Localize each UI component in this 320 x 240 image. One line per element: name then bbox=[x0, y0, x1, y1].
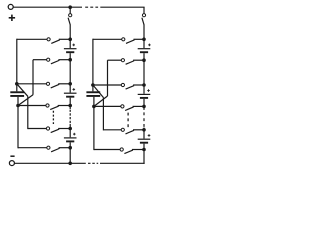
wire module 1 diagonal to node B bbox=[18, 95, 33, 106]
junction module 2 node A bbox=[91, 83, 95, 87]
wire module 1 row2 riser bbox=[32, 60, 34, 95]
wire module 2 row2 riser bbox=[107, 60, 109, 96]
junction module 2 bus row5 bbox=[142, 128, 146, 132]
wire bottom rail right segment bbox=[100, 162, 145, 164]
wire module 1 row2 right bbox=[58, 59, 70, 61]
junction module 2 node B bbox=[92, 105, 96, 109]
wire module 1 bus mid1 bbox=[69, 53, 71, 92]
switch S2e bbox=[121, 128, 134, 134]
plus label bbox=[9, 15, 15, 21]
wire module 2 row5 right bbox=[133, 129, 144, 131]
switch S1d bbox=[46, 104, 59, 110]
wire module 1 bus mid3 bbox=[69, 124, 71, 137]
wire module 2 bus mid3 bbox=[143, 128, 145, 139]
junction module 1 bus row2 bbox=[68, 58, 72, 62]
capacitor C23 plus mark bbox=[148, 134, 151, 137]
wire bottom rail left segment bbox=[15, 162, 86, 164]
wire module 2 row1 right bbox=[134, 38, 145, 40]
capacitor C22 plus mark bbox=[147, 89, 150, 92]
wire module 2 row2 right bbox=[133, 59, 144, 61]
wire module 2 diagonal to node B bbox=[94, 96, 108, 106]
wire module 1 diagonal from node A bbox=[17, 84, 28, 97]
wire bottom rail dashed continuation bbox=[88, 162, 98, 164]
junction module 2 bus row4 bbox=[142, 105, 146, 109]
minus label bbox=[10, 155, 14, 157]
negative terminal bbox=[9, 161, 14, 166]
wire module 1 node B drop bbox=[17, 106, 19, 149]
junction module 1 node A bbox=[15, 82, 19, 86]
junction module 2 bus row6 bbox=[142, 148, 146, 152]
wire module 2 bus dotted continuation bbox=[143, 112, 145, 127]
switch S2f bbox=[120, 148, 133, 154]
wire module 2 bus upper bbox=[143, 37, 145, 48]
wire top rail right segment bbox=[100, 6, 144, 8]
wire module 1 row5 riser bbox=[27, 96, 29, 129]
junction module 1 bus row3 bbox=[68, 82, 72, 86]
switch S2a bbox=[122, 38, 135, 44]
wire module 1 row5 left bbox=[28, 128, 47, 130]
wire module 2 bus lower bbox=[143, 144, 145, 164]
capacitor C2f (flying) bbox=[86, 85, 100, 106]
wire module 1 bus lower bbox=[69, 142, 71, 163]
switch S1f bbox=[47, 146, 60, 152]
switch S10 (module 1 top) bbox=[68, 7, 72, 39]
wire module 2 row5 riser bbox=[102, 98, 104, 131]
wire module 1 row4 left bbox=[18, 105, 46, 107]
junction module 1 bus row6 bbox=[68, 146, 72, 150]
wire module 1 row4 right bbox=[58, 105, 70, 107]
switch S20 (module 2 top) bbox=[142, 7, 146, 39]
wire module 2 node B drop bbox=[93, 106, 95, 150]
wire module 1 left rail bbox=[16, 39, 18, 84]
junction bottom rail / module 1 bus bbox=[68, 162, 72, 166]
wire module 2 row4 right bbox=[133, 105, 144, 107]
wire module 2 bus mid1 bbox=[143, 53, 145, 94]
capacitor C21 plus mark bbox=[148, 44, 151, 47]
wire module 1 row3 right bbox=[58, 83, 70, 85]
capacitor C21 bbox=[138, 49, 151, 53]
positive terminal bbox=[8, 4, 13, 9]
wire module 2 row6 left bbox=[94, 149, 120, 151]
wire module 1 switch column dotted continuation bbox=[52, 111, 54, 124]
wire module 1 bus upper bbox=[69, 37, 71, 48]
junction top rail / module 1 bus bbox=[68, 5, 72, 9]
capacitor C13 bbox=[64, 138, 77, 142]
capacitor C13 plus mark bbox=[73, 133, 76, 136]
capacitor C12 plus mark bbox=[73, 88, 76, 91]
wire module 1 row1 left bbox=[17, 38, 47, 40]
wire module 2 row3 left bbox=[93, 84, 121, 86]
junction module 1 node B bbox=[16, 104, 20, 108]
wire module 2 row2 left bbox=[108, 59, 122, 61]
wire module 2 left rail bbox=[92, 39, 94, 85]
capacitor C11 bbox=[64, 49, 77, 53]
junction module 1 bus row4 bbox=[68, 104, 72, 108]
wire module 1 row6 left bbox=[18, 147, 47, 149]
junction module 2 bus row2 bbox=[142, 58, 146, 62]
wire module 2 row4 left bbox=[94, 105, 121, 107]
switch S2d bbox=[121, 105, 134, 111]
wire module 1 row3 left bbox=[17, 83, 47, 85]
switch S1a bbox=[47, 38, 60, 44]
wire module 1 row6 right bbox=[59, 147, 71, 149]
capacitor C11 plus mark bbox=[72, 44, 75, 47]
switch S1c bbox=[46, 82, 59, 88]
switch S2b bbox=[121, 59, 134, 65]
capacitor C22 bbox=[138, 94, 151, 98]
junction module 2 bus row3 bbox=[142, 83, 146, 87]
junction module 2 bus row1 bbox=[142, 38, 146, 42]
switch S2c bbox=[121, 83, 134, 89]
wire module 2 row5 left bbox=[103, 129, 121, 131]
capacitor C23 bbox=[138, 139, 151, 143]
wire top rail dashed continuation bbox=[85, 6, 98, 8]
wire module 1 row1 right bbox=[59, 38, 70, 40]
wire top rail left segment bbox=[13, 6, 82, 8]
junction module 1 bus row5 bbox=[68, 127, 72, 131]
wire module 2 switch column dotted continuation bbox=[127, 113, 129, 128]
switch S1b bbox=[47, 58, 60, 64]
wire module 1 row5 right bbox=[58, 128, 70, 130]
capacitor C12 bbox=[64, 93, 77, 97]
wire module 2 bus mid2 bbox=[143, 99, 145, 110]
wire module 2 row3 right bbox=[133, 84, 144, 86]
wire module 2 row6 right bbox=[132, 149, 144, 151]
wire module 1 row2 left bbox=[33, 59, 47, 61]
wire module 2 row1 left bbox=[93, 38, 122, 40]
junction module 1 bus row1 bbox=[68, 38, 72, 42]
wire module 1 bus mid2 bbox=[69, 98, 71, 109]
wire module 1 bus dotted continuation bbox=[69, 110, 71, 124]
switch S1e bbox=[46, 127, 59, 133]
capacitor C1f (flying) bbox=[10, 84, 24, 106]
wire module 2 diagonal from node A bbox=[93, 85, 104, 98]
